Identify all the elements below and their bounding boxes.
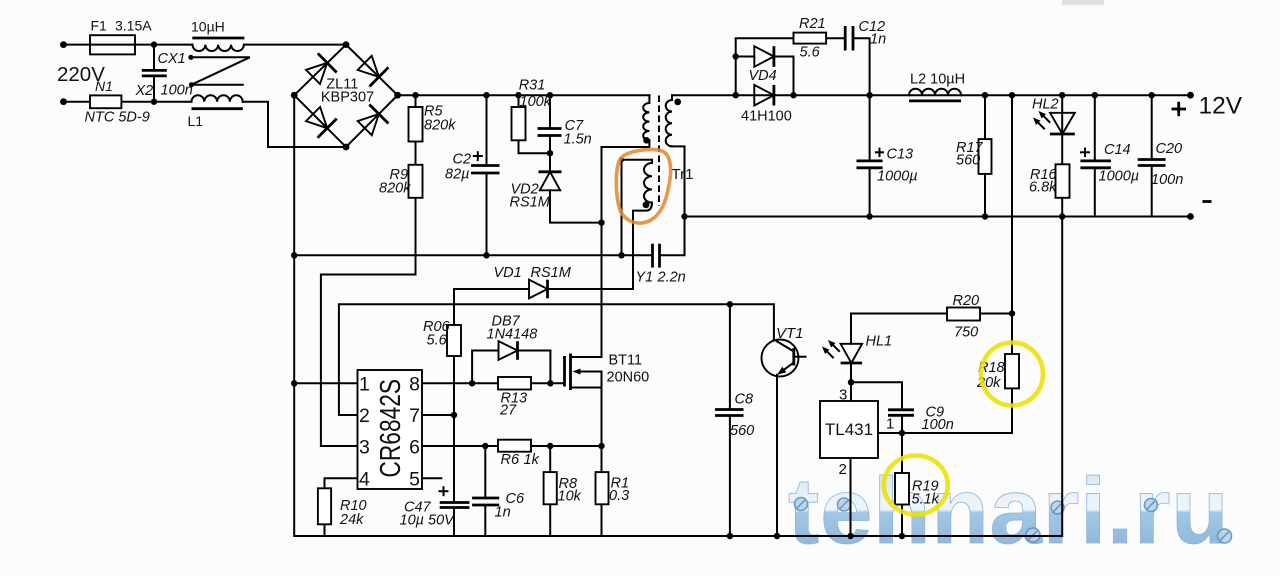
svg-text:41H100: 41H100 [741, 109, 792, 125]
svg-text:F1: F1 [91, 18, 108, 34]
svg-text:24k: 24k [339, 512, 364, 528]
svg-text:2: 2 [839, 461, 847, 478]
svg-text:1000µ: 1000µ [877, 169, 918, 185]
svg-text:1n: 1n [870, 32, 886, 48]
svg-text:HL1: HL1 [866, 334, 893, 350]
svg-text:27: 27 [499, 403, 517, 419]
svg-text:3: 3 [839, 387, 847, 404]
svg-text:7: 7 [409, 405, 420, 427]
svg-text:KBP307: KBP307 [321, 90, 374, 106]
svg-text:6.8k: 6.8k [1029, 180, 1057, 196]
svg-text:3: 3 [359, 436, 370, 458]
svg-text:82µ: 82µ [445, 167, 469, 183]
svg-text:100n: 100n [922, 417, 954, 433]
svg-text:VT1: VT1 [776, 325, 804, 342]
svg-text:5.6: 5.6 [427, 333, 448, 349]
svg-text:1000µ: 1000µ [1099, 169, 1140, 185]
svg-text:C8: C8 [735, 392, 754, 408]
svg-text:NTC 5D-9: NTC 5D-9 [85, 110, 150, 126]
svg-text:20N60: 20N60 [607, 370, 650, 386]
svg-text:1.5n: 1.5n [564, 132, 592, 148]
svg-text:R6: R6 [501, 452, 520, 468]
svg-text:HL2: HL2 [1032, 97, 1059, 113]
svg-text:CR6842S: CR6842S [375, 379, 407, 478]
svg-text:560: 560 [956, 153, 980, 169]
svg-text:VD4: VD4 [749, 68, 777, 84]
svg-text:12V: 12V [1199, 93, 1243, 120]
svg-text:100k: 100k [520, 94, 552, 110]
svg-text:R31: R31 [519, 78, 546, 94]
svg-text:tehnari.ru: tehnari.ru [788, 458, 1230, 563]
svg-text:100n: 100n [161, 83, 193, 99]
svg-text:C13: C13 [887, 147, 914, 163]
svg-text:1: 1 [886, 416, 894, 433]
svg-text:820k: 820k [379, 181, 411, 197]
svg-text:1n: 1n [495, 505, 511, 521]
svg-text:L2 10µH: L2 10µH [910, 72, 965, 88]
svg-text:750: 750 [954, 325, 978, 341]
svg-text:1k: 1k [524, 452, 540, 468]
svg-text:1N4148: 1N4148 [487, 327, 538, 343]
svg-text:2.2n: 2.2n [657, 270, 686, 286]
svg-text:C20: C20 [1156, 141, 1183, 157]
svg-text:X2: X2 [135, 83, 154, 99]
svg-text:1: 1 [359, 374, 370, 396]
svg-text:CX1: CX1 [158, 51, 186, 67]
svg-text:10k: 10k [558, 489, 582, 505]
svg-text:TL431: TL431 [825, 420, 873, 439]
svg-text:R21: R21 [799, 16, 826, 32]
svg-text:6: 6 [409, 436, 420, 458]
svg-text:8: 8 [409, 374, 420, 396]
svg-text:0.3: 0.3 [609, 488, 629, 504]
svg-text:R20: R20 [953, 293, 980, 309]
svg-text:10µH: 10µH [191, 19, 225, 35]
svg-text:L1: L1 [188, 113, 204, 129]
svg-text:Tr1: Tr1 [672, 166, 694, 183]
svg-text:N1: N1 [95, 78, 113, 94]
svg-text:5.1k: 5.1k [912, 492, 940, 508]
svg-text:5: 5 [409, 468, 420, 490]
svg-text:100n: 100n [1151, 172, 1183, 188]
svg-text:820k: 820k [424, 118, 456, 134]
svg-text:560: 560 [730, 423, 754, 439]
svg-text:RS1M: RS1M [531, 265, 572, 281]
svg-text:5.6: 5.6 [800, 45, 821, 61]
svg-text:3.15A: 3.15A [115, 18, 152, 34]
svg-text:10µ 50V: 10µ 50V [400, 513, 456, 529]
svg-text:BT11: BT11 [609, 353, 643, 369]
svg-text:2: 2 [359, 405, 370, 427]
svg-text:C14: C14 [1104, 142, 1131, 158]
svg-text:VD1: VD1 [494, 265, 522, 281]
svg-text:Y1: Y1 [636, 270, 654, 286]
svg-text:4: 4 [359, 468, 370, 490]
svg-text:RS1M: RS1M [510, 195, 551, 211]
svg-text:C2: C2 [453, 152, 472, 168]
